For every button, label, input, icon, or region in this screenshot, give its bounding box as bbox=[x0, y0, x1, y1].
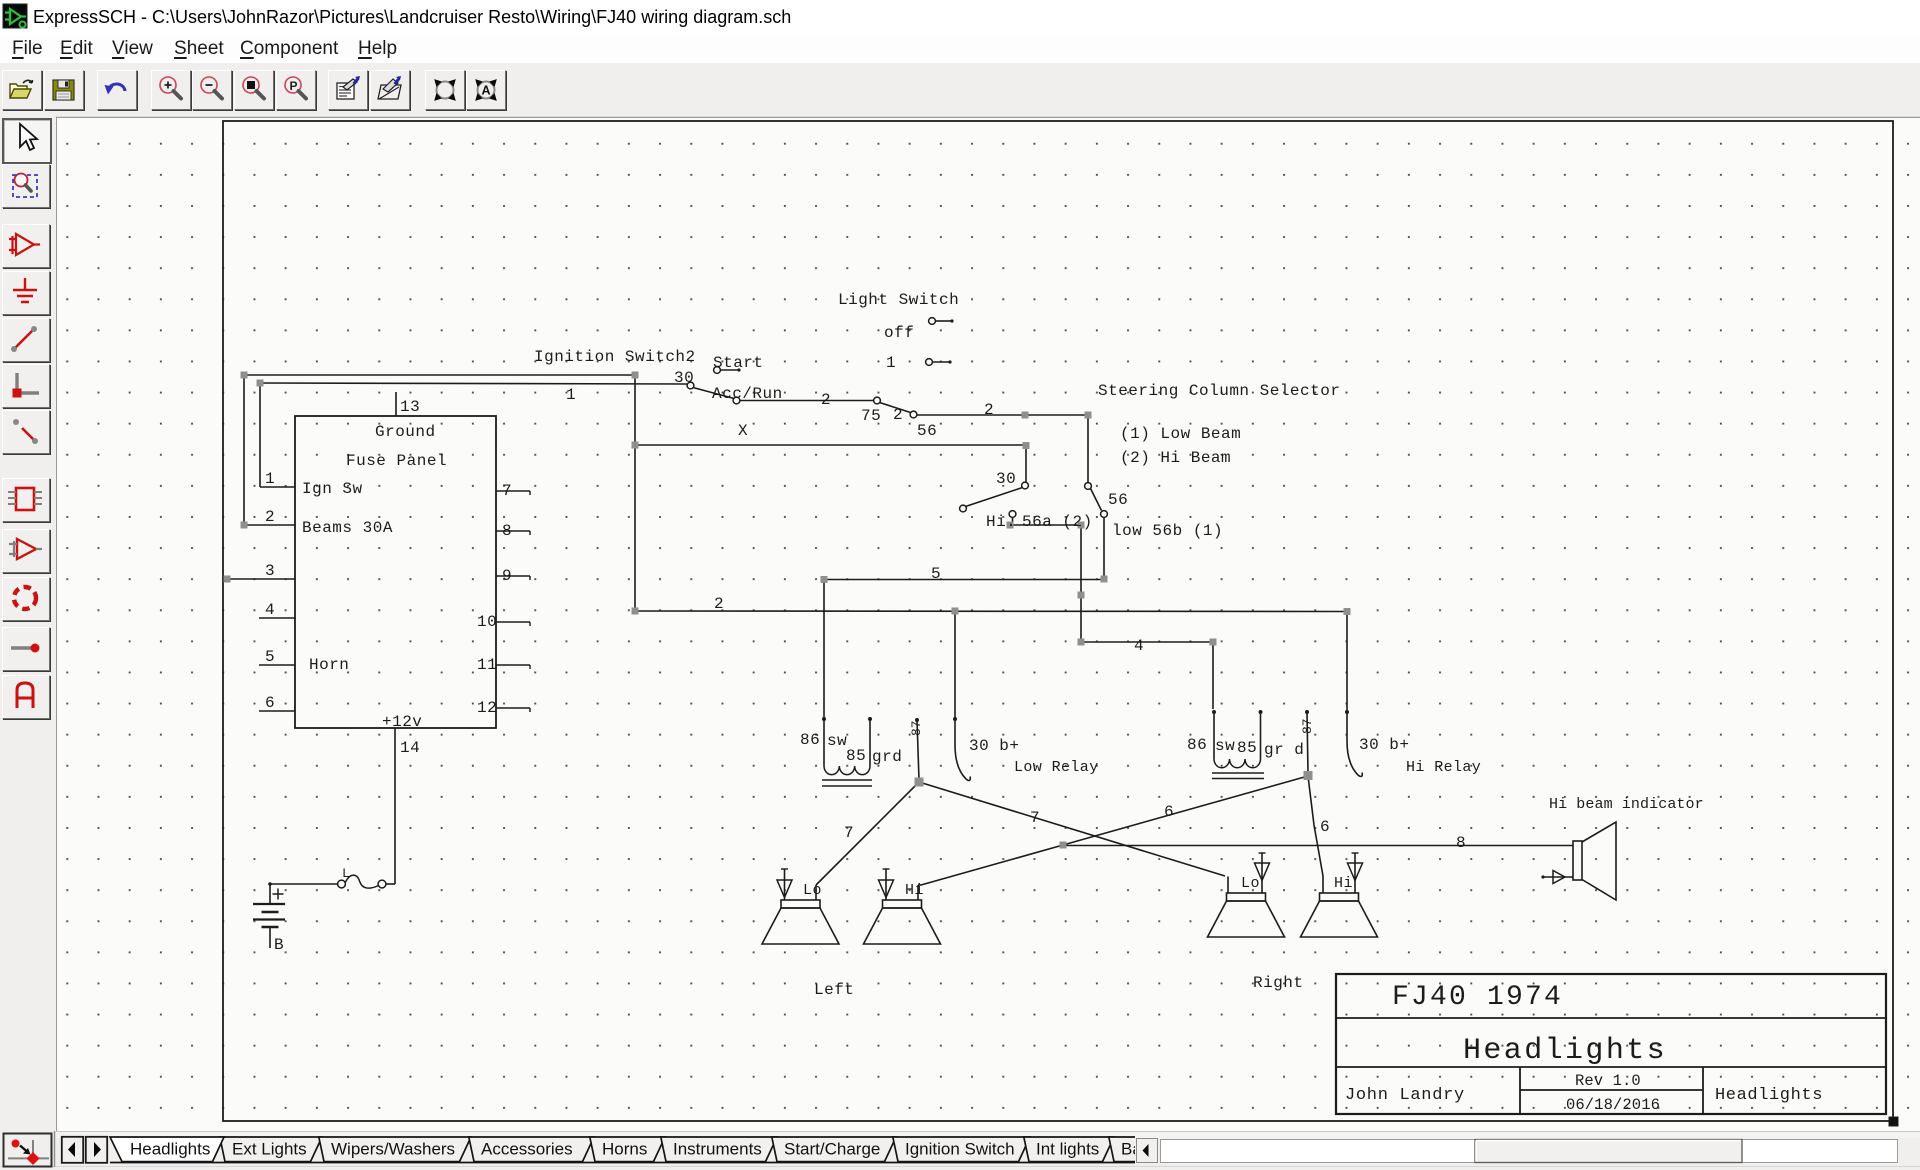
svg-text:Beams 30A: Beams 30A bbox=[302, 519, 393, 537]
svg-text:X: X bbox=[738, 422, 748, 440]
svg-text:sw: sw bbox=[827, 732, 847, 750]
svg-text:30: 30 bbox=[674, 369, 694, 387]
svg-text:2: 2 bbox=[893, 406, 903, 424]
svg-text:Ignition Switch: Ignition Switch bbox=[905, 1140, 1015, 1159]
svg-text:Headlights: Headlights bbox=[130, 1140, 210, 1159]
svg-text:30: 30 bbox=[996, 470, 1016, 488]
svg-text:30 b+: 30 b+ bbox=[969, 737, 1020, 755]
svg-text:Ground: Ground bbox=[375, 423, 436, 441]
svg-text:8: 8 bbox=[1456, 834, 1466, 852]
svg-text:Lo: Lo bbox=[803, 882, 822, 899]
svg-text:Rev 1.0: Rev 1.0 bbox=[1575, 1072, 1641, 1090]
svg-text:low 56b (1): low 56b (1) bbox=[1112, 522, 1223, 540]
svg-text:Headlights: Headlights bbox=[1463, 1034, 1667, 1068]
svg-text:grd: grd bbox=[872, 748, 902, 766]
svg-text:Fuse Panel: Fuse Panel bbox=[346, 452, 447, 470]
svg-text:14: 14 bbox=[400, 739, 420, 757]
svg-text:87: 87 bbox=[1300, 718, 1315, 734]
svg-text:Hi: Hi bbox=[905, 882, 924, 899]
svg-text:Low Relay: Low Relay bbox=[1014, 759, 1099, 776]
svg-text:Left: Left bbox=[814, 981, 854, 999]
svg-text:6: 6 bbox=[1320, 818, 1330, 836]
svg-text:86: 86 bbox=[800, 731, 820, 749]
svg-text:John Landry: John Landry bbox=[1345, 1086, 1465, 1105]
svg-text:Ignition Switch2: Ignition Switch2 bbox=[534, 348, 696, 366]
svg-text:P: P bbox=[290, 79, 298, 93]
svg-text:5: 5 bbox=[265, 648, 275, 666]
svg-text:2: 2 bbox=[821, 391, 831, 409]
svg-text:L: L bbox=[342, 866, 350, 881]
svg-text:85: 85 bbox=[1237, 739, 1257, 757]
svg-text:2: 2 bbox=[714, 595, 724, 613]
svg-text:1: 1 bbox=[886, 354, 896, 372]
svg-text:(1) Low Beam: (1) Low Beam bbox=[1120, 425, 1241, 443]
svg-text:Headlights: Headlights bbox=[1715, 1086, 1823, 1105]
svg-text:7: 7 bbox=[844, 824, 854, 842]
svg-text:11: 11 bbox=[477, 656, 497, 674]
svg-text:Start: Start bbox=[713, 354, 764, 372]
svg-text:06/18/2016: 06/18/2016 bbox=[1566, 1096, 1660, 1114]
svg-text:7: 7 bbox=[1030, 809, 1040, 827]
svg-text:Int lights: Int lights bbox=[1036, 1140, 1099, 1159]
svg-text:Hi: Hi bbox=[1334, 875, 1353, 892]
svg-text:Hi beam indicator: Hi beam indicator bbox=[1549, 796, 1704, 813]
svg-text:56: 56 bbox=[1108, 491, 1128, 509]
svg-text:10: 10 bbox=[477, 613, 497, 631]
svg-text:7: 7 bbox=[502, 482, 512, 500]
svg-text:2: 2 bbox=[265, 508, 275, 526]
svg-text:Ign Sw: Ign Sw bbox=[302, 480, 363, 498]
svg-text:Hi Relay: Hi Relay bbox=[1406, 759, 1481, 776]
svg-text:3: 3 bbox=[265, 562, 275, 580]
svg-text:gr d: gr d bbox=[1264, 741, 1304, 759]
svg-text:56a (2): 56a (2) bbox=[1022, 513, 1093, 531]
svg-text:Acc/Run: Acc/Run bbox=[712, 385, 783, 403]
svg-text:12: 12 bbox=[477, 699, 497, 717]
svg-text:2: 2 bbox=[984, 401, 994, 419]
svg-text:85: 85 bbox=[846, 747, 866, 765]
svg-text:30 b+: 30 b+ bbox=[1359, 736, 1410, 754]
svg-text:9: 9 bbox=[502, 567, 512, 585]
svg-text:(2) Hi Beam: (2) Hi Beam bbox=[1120, 449, 1231, 467]
svg-text:4: 4 bbox=[265, 601, 275, 619]
svg-text:Accessories: Accessories bbox=[481, 1140, 573, 1159]
svg-text:sw: sw bbox=[1215, 737, 1235, 755]
svg-text:86: 86 bbox=[1187, 736, 1207, 754]
svg-text:13: 13 bbox=[400, 398, 420, 416]
svg-text:Light Switch: Light Switch bbox=[838, 291, 959, 309]
svg-text:75: 75 bbox=[861, 407, 881, 425]
svg-text:A: A bbox=[482, 84, 491, 98]
svg-text:5: 5 bbox=[931, 565, 941, 583]
svg-text:FJ40 1974: FJ40 1974 bbox=[1392, 982, 1563, 1013]
svg-text:Horn: Horn bbox=[309, 656, 349, 674]
svg-text:56: 56 bbox=[917, 422, 937, 440]
svg-text:Lo: Lo bbox=[1241, 875, 1260, 892]
svg-text:6: 6 bbox=[265, 694, 275, 712]
svg-text:+12v: +12v bbox=[382, 713, 422, 731]
svg-text:Ext Lights: Ext Lights bbox=[232, 1140, 307, 1159]
svg-text:1: 1 bbox=[566, 386, 576, 404]
svg-text:4: 4 bbox=[1134, 637, 1144, 655]
svg-text:Start/Charge: Start/Charge bbox=[784, 1140, 880, 1159]
svg-text:Instruments: Instruments bbox=[673, 1140, 762, 1159]
svg-text:off: off bbox=[884, 324, 914, 342]
svg-text:6: 6 bbox=[1164, 803, 1174, 821]
svg-text:Horns: Horns bbox=[602, 1140, 647, 1159]
svg-text:1: 1 bbox=[265, 470, 275, 488]
svg-text:B: B bbox=[274, 936, 284, 954]
svg-text:Hi.: Hi. bbox=[986, 513, 1016, 531]
svg-text:Wipers/Washers: Wipers/Washers bbox=[331, 1140, 455, 1159]
svg-text:Right: Right bbox=[1253, 974, 1304, 992]
svg-text:8: 8 bbox=[502, 522, 512, 540]
svg-text:Steering Column Selector: Steering Column Selector bbox=[1098, 382, 1340, 400]
svg-text:87: 87 bbox=[909, 720, 924, 736]
